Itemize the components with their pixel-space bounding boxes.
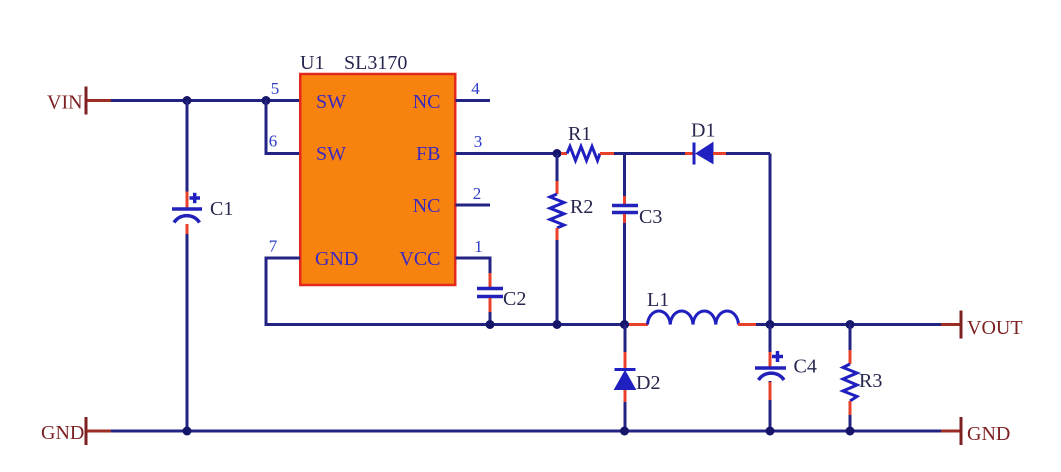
- IC U1 body: [300, 74, 455, 285]
- capacitor C4: [755, 351, 817, 380]
- wire pin 2 stub: [456, 204, 491, 207]
- svg-text:C2: C2: [503, 288, 526, 310]
- resistor R1: [561, 123, 614, 161]
- svg-text:GND: GND: [315, 248, 358, 270]
- wire pin6 branch: [266, 101, 300, 154]
- svg-text:SW: SW: [316, 91, 346, 113]
- svg-text:4: 4: [471, 79, 480, 98]
- svg-text:SL3170: SL3170: [344, 52, 407, 74]
- wire C4 top: [769, 325, 772, 367]
- wire C3 bottom: [623, 214, 626, 325]
- wire D2 top: [624, 325, 627, 370]
- IC U1 title: [300, 52, 407, 74]
- junction C4/GND rail: [766, 427, 775, 436]
- svg-text:VCC: VCC: [399, 248, 440, 270]
- diode D1: [685, 120, 726, 165]
- resistor R3: [843, 364, 882, 401]
- wire VIN rail: [111, 99, 300, 102]
- svg-text:5: 5: [271, 79, 280, 98]
- svg-text:NC: NC: [413, 91, 441, 113]
- junction R3/GND rail: [846, 427, 855, 436]
- wire C2 bottom: [489, 298, 492, 325]
- wire FB rail right: [726, 152, 770, 155]
- port VOUT: [941, 311, 1023, 340]
- svg-text:U1: U1: [300, 52, 324, 74]
- port GND right: [941, 417, 1010, 445]
- svg-text:VOUT: VOUT: [967, 317, 1023, 339]
- wire FB rail mid: [614, 152, 685, 155]
- svg-text:D2: D2: [636, 372, 660, 394]
- wire C3 top: [623, 154, 626, 205]
- inductor L1: [629, 289, 757, 325]
- wire bottom GND rail: [111, 430, 941, 433]
- svg-text:R1: R1: [568, 123, 591, 145]
- svg-text:NC: NC: [413, 195, 441, 217]
- wire C1 bottom drop: [186, 224, 189, 431]
- junction R3/mid rail: [846, 320, 855, 329]
- svg-text:C1: C1: [210, 198, 233, 220]
- junction D1/C4/mid rail: [766, 320, 775, 329]
- svg-text:2: 2: [473, 184, 482, 203]
- svg-text:SW: SW: [316, 143, 346, 165]
- resistor R2: [550, 194, 593, 228]
- junction R2/mid rail: [553, 320, 562, 329]
- wire pin 7 GND loop: [266, 258, 632, 325]
- svg-text:FB: FB: [416, 143, 440, 165]
- wire pin 1 VCC branch: [456, 258, 491, 287]
- junction C1/GND rail: [183, 427, 192, 436]
- svg-text:C3: C3: [639, 206, 662, 228]
- wire R2 branch: [556, 154, 559, 195]
- wire D1 drop: [769, 154, 772, 325]
- diode D2: [615, 370, 661, 395]
- wire C4 bottom: [769, 381, 772, 431]
- junction VIN/SW branch: [262, 96, 271, 105]
- wire mid rail right: [756, 323, 941, 326]
- wire R3 bottom: [849, 401, 852, 431]
- svg-text:1: 1: [474, 237, 483, 256]
- svg-text:L1: L1: [647, 289, 669, 311]
- port GND left: [41, 417, 111, 445]
- svg-text:3: 3: [474, 132, 483, 151]
- wire C1 top drop: [186, 101, 189, 208]
- capacitor C1: [172, 193, 233, 223]
- svg-text:7: 7: [269, 237, 278, 256]
- junction C3/D2/mid rail: [620, 320, 629, 329]
- wire R2 bottom: [556, 228, 559, 325]
- junction FB/R2: [553, 149, 562, 158]
- svg-text:GND: GND: [41, 422, 84, 444]
- svg-text:D1: D1: [691, 120, 715, 142]
- svg-text:C4: C4: [794, 356, 817, 378]
- svg-text:R3: R3: [859, 370, 882, 392]
- svg-text:6: 6: [269, 132, 278, 151]
- wire pin 4 stub: [456, 99, 491, 102]
- junction C2/mid rail: [486, 320, 495, 329]
- wire FB rail left: [456, 152, 562, 155]
- capacitor C3: [612, 206, 662, 229]
- port VIN: [47, 87, 111, 115]
- svg-text:R2: R2: [570, 196, 593, 218]
- wire R3 top: [849, 325, 852, 365]
- junction VIN/C1: [183, 96, 192, 105]
- junction D2/GND rail: [620, 427, 629, 436]
- wire D2 bottom: [624, 390, 627, 431]
- svg-text:VIN: VIN: [47, 92, 83, 114]
- svg-text:GND: GND: [967, 423, 1010, 445]
- capacitor C2: [477, 288, 526, 310]
